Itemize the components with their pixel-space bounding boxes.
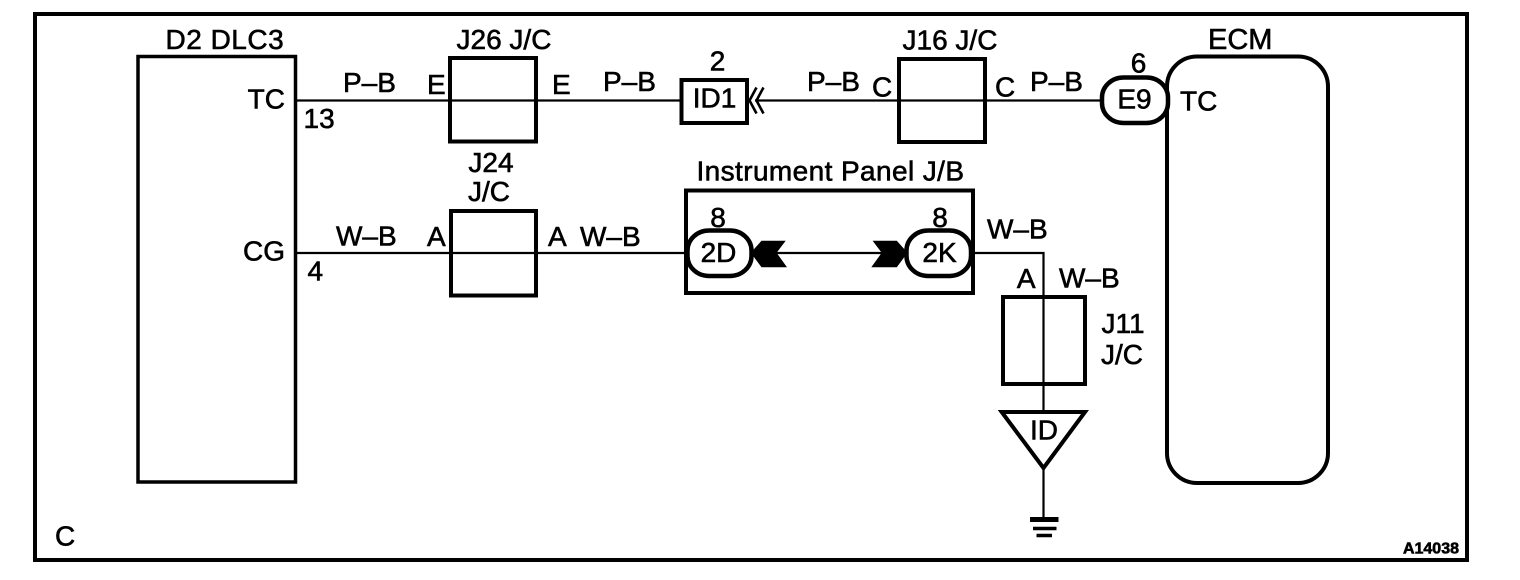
svg-text:TC: TC [248,84,285,115]
svg-text:ID: ID [1030,415,1058,446]
svg-text:J/C: J/C [1101,339,1143,370]
svg-text:Instrument Panel J/B: Instrument Panel J/B [697,156,965,187]
svg-text:J16 J/C: J16 J/C [903,25,998,56]
svg-text:E: E [427,69,446,100]
Instrument Panel J/B box [686,191,973,294]
svg-text:C: C [55,521,75,552]
arrow right (toward 2K) [871,241,907,267]
junction J26 J/C box [450,58,536,142]
ECM box [1167,57,1328,484]
connector ID1 box [682,80,748,123]
svg-text:W–B: W–B [580,221,641,252]
svg-text:ID1: ID1 [693,83,737,114]
wire: ID triangle apex to ground [1042,466,1044,520]
svg-text:J11: J11 [1102,308,1145,339]
svg-text:A: A [427,221,446,252]
svg-text:A14038: A14038 [1403,541,1459,558]
svg-text:J26 J/C: J26 J/C [457,24,552,55]
connector D2 DLC3 box [138,57,296,483]
connector chevrons at ID1 [750,88,757,114]
svg-text:J/C: J/C [468,176,510,207]
svg-text:C: C [872,72,892,103]
ground symbol [1030,517,1059,522]
svg-text:J24: J24 [468,147,513,178]
svg-text:2K: 2K [922,237,957,268]
wire: ID1 chevron to J16 to E9 [755,99,1103,101]
svg-text:2: 2 [710,46,726,77]
svg-text:13: 13 [304,103,335,134]
svg-text:E9: E9 [1117,84,1151,115]
wire: between 2D and 2K arrows [752,252,906,254]
svg-text:4: 4 [308,256,324,287]
svg-text:P–B: P–B [1030,66,1083,97]
junction J24 J/C box [451,211,536,296]
svg-text:C: C [995,72,1015,103]
svg-text:W–B: W–B [987,214,1048,245]
svg-text:P–B: P–B [343,67,396,98]
svg-text:ECM: ECM [1208,24,1272,56]
ID triangle [1002,412,1085,468]
connector 2K ellipse [907,231,972,277]
svg-text:6: 6 [1131,48,1147,79]
svg-text:P–B: P–B [603,66,656,97]
wire CG: DLC3 pin 4 to Instrument Panel J/B 2D [295,252,688,254]
connector 2D ellipse [688,231,752,277]
connector E9 ellipse [1102,78,1168,124]
svg-text:CG: CG [243,236,285,267]
arrow left (toward 2D) [751,241,787,267]
svg-text:P–B: P–B [807,66,860,97]
svg-text:2D: 2D [701,237,737,268]
svg-text:E: E [552,69,571,100]
svg-text:A: A [548,221,567,252]
svg-text:W–B: W–B [1059,263,1120,294]
svg-text:W–B: W–B [336,221,397,252]
junction J11 J/C box [1003,297,1085,384]
svg-text:TC: TC [1180,86,1217,117]
wire: 2K to corner then down through J11 to ID triangle [972,253,1044,412]
svg-text:A: A [1017,263,1036,294]
junction J16 J/C box [899,59,985,142]
wire TC: DLC3 pin 13 to ID1 [295,99,682,101]
svg-text:D2 DLC3: D2 DLC3 [166,24,285,55]
